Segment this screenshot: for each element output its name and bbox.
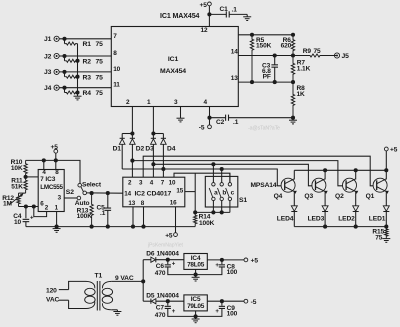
node D4 on Q4 line: [161, 167, 165, 171]
node pin2 jog: [32, 204, 36, 208]
node pin8 +5: [54, 158, 58, 162]
node IC5 ground: [194, 314, 198, 318]
node J2: [62, 54, 66, 58]
supply +5 output: [244, 258, 248, 262]
svg-text:7: 7: [161, 179, 165, 186]
svg-text:Q4: Q4: [274, 193, 283, 200]
node pin4: [42, 158, 46, 162]
svg-text:+: +: [215, 309, 219, 315]
switch S1 column b: [220, 183, 223, 186]
svg-text:J1: J1: [44, 36, 52, 43]
node C4 top: [24, 204, 28, 208]
wire emitter LED2: [355, 191, 357, 206]
wire J3 to IC1 pin 10: [59, 71, 111, 73]
capacitor C2 .1: [210, 117, 226, 119]
svg-text:75: 75: [375, 234, 383, 241]
svg-text:VAC: VAC: [46, 296, 60, 303]
wire collector rail: [294, 169, 386, 171]
node R14 top: [193, 210, 197, 214]
svg-text:1M: 1M: [3, 201, 13, 208]
node C5 top: [106, 191, 110, 195]
svg-text:.1: .1: [100, 210, 106, 217]
wire LED3 to rail: [324, 212, 326, 227]
svg-text:1K: 1K: [297, 91, 306, 98]
svg-text:7: 7: [113, 33, 117, 40]
diode D5 1N4004: [143, 300, 151, 302]
node R6 top: [291, 33, 295, 37]
svg-text:1N4004: 1N4004: [157, 292, 180, 299]
svg-text:D5: D5: [146, 292, 155, 299]
svg-text:LMC555: LMC555: [40, 184, 63, 191]
node C1: [207, 12, 211, 16]
wire reset vertical: [194, 173, 196, 212]
svg-text:1: 1: [147, 99, 151, 106]
IC1 op-amp box MAX454: [111, 27, 238, 107]
wire base line Q3: [153, 164, 312, 186]
svg-text:MAX454: MAX454: [160, 68, 186, 75]
node R3 bus: [75, 75, 79, 79]
wire D3 anode to IC2 pin 4: [152, 144, 154, 177]
wire IC5 ground pin: [195, 311, 197, 317]
ground R15: [382, 238, 390, 240]
resistor R14 100K: [194, 212, 197, 226]
svg-text:10: 10: [14, 219, 22, 226]
node 9VAC junction: [141, 279, 145, 283]
wire emitter LED3: [324, 191, 326, 206]
wire IC1 pin 4 down: [209, 107, 211, 118]
svg-text:100K: 100K: [199, 220, 215, 227]
node collector: [384, 168, 388, 172]
svg-text:+5: +5: [251, 257, 259, 264]
node LED1 rail R15: [384, 225, 388, 229]
svg-text:J3: J3: [44, 69, 52, 76]
capacitor C5 .1: [107, 193, 109, 208]
node S1 b bottom: [220, 210, 224, 214]
transformer T1 primary winding: [86, 281, 95, 288]
svg-text:11: 11: [113, 82, 120, 89]
svg-text:J4: J4: [44, 85, 52, 92]
wire S1 c down: [229, 201, 231, 213]
svg-text:13: 13: [128, 200, 135, 207]
wire S1 a up: [212, 164, 214, 182]
svg-text:2: 2: [45, 204, 49, 211]
node R8 bottom ground: [291, 116, 295, 120]
wire primary bottom lead: [59, 299, 69, 301]
svg-text:D4: D4: [167, 146, 176, 153]
svg-text:10: 10: [113, 66, 120, 73]
wire +5 rail 555: [55, 153, 57, 160]
capacitor C1 .1: [209, 13, 226, 15]
svg-text:IC2 CD4017: IC2 CD4017: [135, 190, 172, 197]
wire J4 to IC1 pin 11: [59, 87, 111, 89]
svg-text:+5: +5: [390, 147, 398, 154]
wire to D4: [153, 133, 163, 135]
node J1: [62, 37, 66, 41]
wire IC1 pin 2 down: [131, 107, 133, 134]
svg-text:1: 1: [55, 204, 59, 211]
node R5 bottom: [250, 80, 254, 84]
wire S1 b up: [221, 169, 223, 183]
svg-text:c: c: [231, 190, 235, 197]
svg-text:6: 6: [40, 201, 44, 208]
wire to D1: [122, 133, 132, 135]
svg-text:PF: PF: [263, 73, 271, 80]
svg-text:78L05: 78L05: [187, 262, 205, 269]
IC4 regulator 78L05: [184, 254, 207, 270]
svg-text:R3: R3: [83, 74, 92, 81]
svg-text:C2: C2: [216, 119, 225, 126]
svg-text:.1: .1: [232, 7, 238, 14]
wire Q1 collector: [385, 170, 387, 179]
resistor R11 51K: [24, 177, 27, 193]
node Q2 base line: [130, 159, 134, 163]
wire IC3 pin 3 to S2: [64, 197, 77, 199]
ground R8: [292, 118, 294, 121]
wire S1 a down: [212, 201, 214, 213]
svg-text:75: 75: [96, 90, 104, 97]
wire termination bus: [77, 44, 79, 97]
node C5 bottom: [106, 225, 110, 229]
transformer T1 core: [96, 281, 98, 311]
diode D2: [131, 134, 133, 139]
resistor R15 75: [385, 227, 388, 239]
svg-text:jPsKemNapYiet: jPsKemNapYiet: [147, 243, 183, 249]
wire pin 7 stub: [26, 176, 39, 178]
node IC3 pin1 ground: [55, 225, 59, 229]
wire D4 anode to IC2 pin 7: [162, 144, 164, 177]
svg-text:+: +: [172, 309, 176, 315]
capacitor C6 470: [167, 260, 169, 265]
wire IC2 pin 10 reset loop: [174, 173, 230, 182]
svg-text:15: 15: [176, 188, 183, 195]
svg-text:Q1: Q1: [366, 193, 375, 200]
capacitor C7 470: [167, 301, 169, 306]
supply -5 output: [244, 299, 248, 303]
svg-text:100: 100: [227, 269, 238, 276]
wire emitter LED1: [385, 191, 387, 206]
wire +5 to IC1 pin 12: [208, 6, 210, 27]
capacitor C4 10: [25, 207, 27, 219]
node Q3 base line: [151, 162, 155, 166]
svg-text:MPSA14: MPSA14: [251, 182, 277, 189]
resistor R9 75: [293, 54, 337, 57]
capacitor C3 6.8PF: [274, 56, 276, 65]
svg-text:D6: D6: [146, 251, 155, 258]
wire Q4 collector: [293, 170, 295, 179]
svg-text:1.1K: 1.1K: [297, 65, 311, 72]
svg-text:+: +: [30, 215, 34, 221]
resistor R7 1.1K: [291, 56, 294, 83]
wire IC2 pin 16 to +5: [175, 207, 177, 233]
svg-text:LED2: LED2: [338, 216, 355, 223]
node J4: [62, 86, 66, 90]
svg-text:1N4004: 1N4004: [157, 251, 180, 258]
svg-text:100: 100: [227, 311, 238, 318]
wire pin 13 rail: [238, 81, 293, 83]
svg-text:3: 3: [139, 179, 143, 186]
node C8: [220, 258, 224, 262]
svg-text:7: 7: [40, 176, 44, 183]
svg-text:16: 16: [170, 199, 177, 206]
wire primary loop: [69, 281, 86, 289]
node R10 R11 pin7: [24, 175, 28, 179]
node R4 bus: [75, 90, 79, 94]
svg-text:-5: -5: [251, 299, 257, 306]
resistor R10 10K: [24, 160, 27, 177]
svg-text:LED3: LED3: [308, 216, 325, 223]
svg-text:D1: D1: [113, 146, 122, 153]
svg-text:120: 120: [46, 287, 57, 294]
svg-text:14: 14: [231, 49, 238, 56]
ground C1: [246, 14, 248, 16]
wire pin 2 jog: [34, 207, 47, 217]
svg-text:T1: T1: [95, 273, 103, 280]
svg-text:S1: S1: [239, 197, 247, 204]
wire pins 2 6 rail: [19, 206, 39, 208]
node collector: [354, 168, 358, 172]
svg-text:D2: D2: [136, 146, 145, 153]
svg-text:620: 620: [281, 43, 292, 50]
wire S1 c up: [229, 173, 231, 182]
node C3 bottom: [273, 80, 277, 84]
supply +5 collector rail: [385, 151, 387, 170]
svg-text:8: 8: [55, 169, 59, 176]
node C7: [166, 299, 170, 303]
node S1 a bottom: [211, 210, 215, 214]
svg-text:R4: R4: [83, 90, 92, 97]
node R2 bus: [75, 59, 79, 63]
wire IC4 output: [207, 259, 244, 261]
LED LED4: [291, 206, 297, 211]
svg-text:C1: C1: [220, 6, 229, 13]
svg-text:+5: +5: [165, 232, 173, 239]
resistor R6 620: [291, 35, 294, 56]
capacitor C9 100: [221, 301, 223, 306]
connector J5: [334, 53, 339, 58]
wire primary top lead: [59, 289, 69, 291]
svg-text:2: 2: [126, 99, 130, 106]
wire S1 b down: [221, 201, 223, 213]
capacitor C8 100: [221, 260, 223, 264]
wire D1 anode to base line Q4: [121, 144, 123, 169]
svg-text:J2: J2: [44, 53, 52, 60]
diode D3: [152, 134, 154, 139]
svg-text:b: b: [222, 190, 226, 197]
wire IC2 pin 8 to ground rail: [143, 207, 145, 227]
switch S1 column a: [212, 183, 215, 186]
resistor R3 75: [64, 72, 66, 77]
svg-text:12: 12: [201, 27, 208, 34]
svg-text:IC3: IC3: [45, 176, 55, 183]
diode D1: [120, 137, 125, 139]
svg-text:470: 470: [155, 270, 166, 277]
node -5 / C2: [207, 116, 211, 120]
wire rectifier feed: [142, 260, 144, 302]
node R5 top: [250, 33, 254, 37]
ground main rail: [56, 227, 58, 229]
svg-text:R9: R9: [303, 48, 312, 55]
svg-text:14: 14: [124, 190, 131, 197]
supply -5: [209, 118, 211, 125]
svg-text:Q2: Q2: [335, 193, 344, 200]
svg-text:10: 10: [169, 179, 176, 186]
wire LED cathode rail: [294, 226, 386, 228]
LED LED1: [383, 206, 389, 211]
wire IC2 pin 13 to ground rail: [132, 207, 134, 227]
wire S1 bottom line: [195, 211, 230, 213]
svg-text:+: +: [172, 261, 176, 267]
wire Q2 collector: [355, 170, 357, 179]
svg-text:10K: 10K: [11, 165, 23, 172]
wire LED4 to rail: [293, 212, 295, 227]
resistor R5 150K: [250, 35, 253, 82]
wire IC3 pin 8 up: [55, 160, 57, 169]
node diode pair D1 D2: [130, 131, 134, 135]
wire IC1 pin 3 to ground: [180, 107, 182, 119]
svg-text:Select: Select: [82, 181, 102, 188]
wire S2 to IC2 pin 14: [87, 192, 123, 194]
IC5 regulator 79L05: [184, 295, 207, 311]
svg-text:51K: 51K: [11, 183, 23, 190]
wire pin 14 rail: [238, 55, 293, 57]
resistor R4 75: [64, 88, 66, 93]
resistor R8 1K: [291, 82, 294, 118]
svg-text:D3: D3: [145, 146, 154, 153]
wire IC5 output: [207, 300, 244, 302]
transistor Q3 MPSA14: [312, 178, 326, 192]
node J3: [62, 70, 66, 74]
node R13 bottom: [90, 225, 94, 229]
svg-text:13: 13: [231, 75, 238, 82]
svg-text:+5: +5: [200, 2, 208, 9]
node diode pair D3 D4: [151, 131, 155, 135]
svg-text:R1: R1: [83, 41, 92, 48]
svg-text:Auto: Auto: [75, 200, 90, 207]
wire main ground rail: [26, 226, 195, 228]
potentiometer R12 1M: [19, 192, 26, 194]
svg-text:470: 470: [155, 312, 166, 319]
node C9: [220, 299, 224, 303]
wire feedback rail top: [238, 34, 293, 36]
svg-text:IC1: IC1: [168, 56, 179, 63]
svg-text:J5: J5: [342, 53, 350, 60]
diode D6 1N4004: [143, 259, 151, 261]
svg-text:LED4: LED4: [277, 216, 294, 223]
wire secondary return to ground: [111, 309, 117, 311]
node LED3 rail: [323, 225, 327, 229]
node C3 top: [273, 53, 277, 57]
resistor R1 75: [64, 39, 66, 44]
wire base line Q2: [132, 161, 342, 186]
diode D4: [161, 137, 166, 139]
node collector: [323, 168, 327, 172]
wire IC3 pin 1 to ground rail: [56, 212, 58, 227]
svg-text:8: 8: [141, 200, 145, 207]
resistor R13 100K: [90, 193, 93, 227]
IC2 counter box CD4017: [123, 177, 185, 207]
ground IC4: [195, 275, 197, 278]
wire J2 to IC1 pin 8: [59, 55, 111, 57]
LED LED2: [353, 206, 359, 211]
ground IC5: [195, 316, 197, 319]
node LED2 rail: [354, 225, 358, 229]
svg-text:C7: C7: [156, 305, 165, 312]
svg-text:150K: 150K: [256, 43, 272, 50]
svg-text:4: 4: [150, 179, 154, 186]
svg-text:100K: 100K: [77, 213, 93, 220]
svg-text:8: 8: [113, 50, 117, 57]
wire LED1 to rail: [385, 212, 387, 227]
svg-text:75: 75: [96, 74, 104, 81]
wire IC1 pin 1 down: [152, 107, 154, 134]
node output R6/R7/R9: [291, 53, 295, 57]
node R7 bottom: [291, 80, 295, 84]
svg-text:4: 4: [204, 99, 208, 106]
LED LED3: [322, 206, 328, 211]
svg-text:75: 75: [96, 41, 104, 48]
wire IC2 pin 3 to base line Q1: [143, 156, 373, 186]
resistor R2 75: [64, 56, 66, 61]
svg-text:2: 2: [128, 179, 132, 186]
svg-text:-a@sTaN?aTe: -a@sTaN?aTe: [248, 126, 280, 132]
svg-text:75: 75: [314, 48, 322, 55]
transistor Q4 MPSA14: [281, 178, 295, 192]
svg-text:+: +: [215, 263, 219, 269]
node S1 b on Q4 line: [220, 167, 224, 171]
transistor Q2 MPSA14: [343, 178, 357, 192]
IC3 timer box LMC555: [38, 170, 64, 212]
svg-text:Q3: Q3: [304, 193, 313, 200]
ground bus: [74, 95, 82, 97]
svg-text:S2: S2: [66, 189, 74, 196]
wire IC2 pin 15 stub: [185, 191, 195, 193]
wire Q3 collector: [324, 170, 326, 179]
svg-text:R2: R2: [83, 58, 92, 65]
svg-text:.1: .1: [233, 119, 239, 126]
svg-text:9 VAC: 9 VAC: [115, 275, 134, 282]
node R13 top: [90, 191, 94, 195]
svg-text:3: 3: [58, 195, 62, 202]
svg-text:79L05: 79L05: [187, 303, 205, 310]
svg-text:-5: -5: [199, 125, 205, 132]
wire D2 anode to IC2 pin 2: [131, 144, 133, 177]
node C6: [166, 258, 170, 262]
transformer T1 secondary winding: [102, 281, 111, 288]
wire IC4 ground pin: [195, 269, 197, 274]
wire J1 to IC1 pin 7: [59, 38, 111, 40]
node S1 a on Q3 line: [211, 162, 215, 166]
switch S1 column c: [228, 183, 231, 186]
wire IC3 pin 4 up: [43, 160, 45, 169]
wire emitter LED4: [293, 191, 295, 206]
svg-text:IC1 MAX454: IC1 MAX454: [160, 13, 200, 20]
switch S1 box: [205, 176, 238, 207]
node IC4 ground: [194, 273, 198, 277]
svg-text:a: a: [214, 190, 218, 197]
transistor Q1 MPSA14: [373, 178, 387, 192]
svg-text:75: 75: [96, 58, 104, 65]
svg-text:3: 3: [174, 99, 178, 106]
wire LED2 to rail: [355, 212, 357, 227]
svg-text:LED1: LED1: [369, 216, 386, 223]
